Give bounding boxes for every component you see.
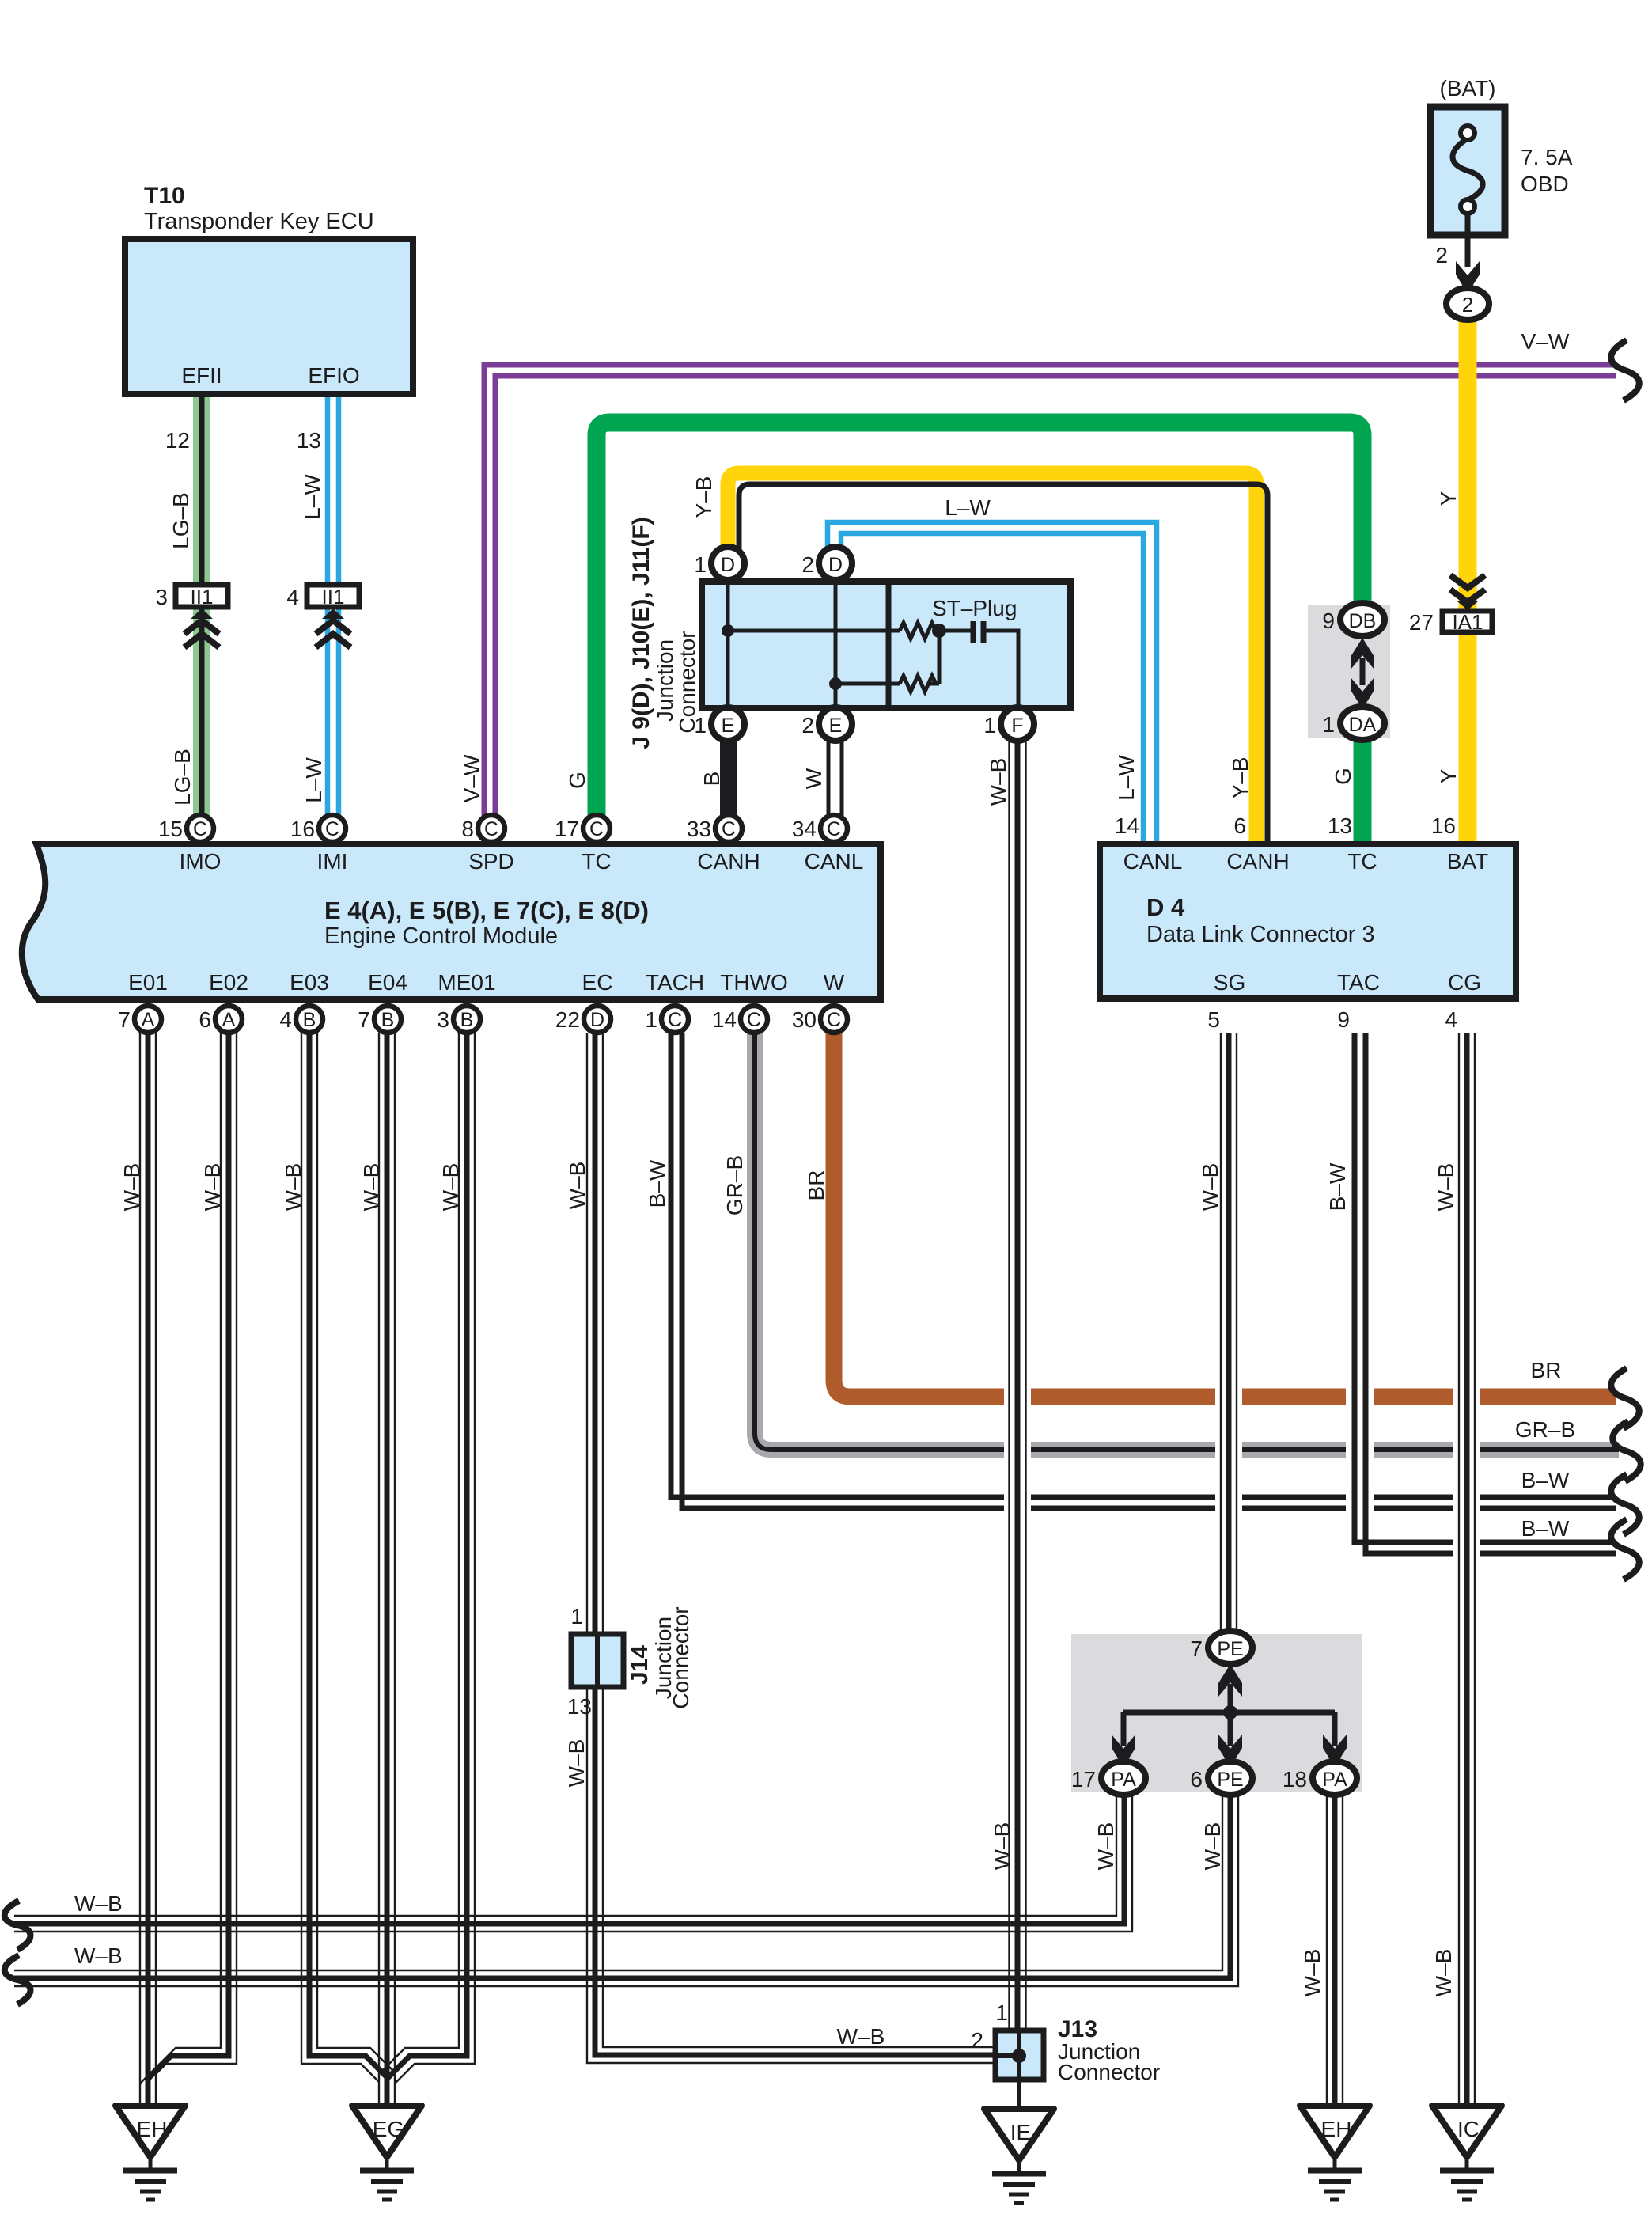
svg-text:W–B: W–B <box>1200 1822 1225 1871</box>
svg-text:17: 17 <box>555 817 579 841</box>
svg-text:D: D <box>828 554 843 576</box>
svg-text:PA: PA <box>1111 1769 1136 1791</box>
wire L-W right blue line <box>336 395 342 819</box>
wire W-B from ECM ME01 pin 3 joining EG ground wire <box>379 1033 475 2084</box>
wire V-W from SPD pin 8 to right break (outer purple line) <box>484 365 1616 819</box>
ground IC <box>1432 2106 1502 2200</box>
svg-text:TC: TC <box>1347 849 1377 874</box>
terminal D2 <box>801 547 852 580</box>
svg-text:IE: IE <box>1010 2120 1031 2144</box>
svg-text:B–W: B–W <box>1521 1468 1570 1492</box>
svg-text:BR: BR <box>804 1170 828 1201</box>
svg-text:T10: T10 <box>144 183 185 209</box>
svg-text:27: 27 <box>1409 610 1434 635</box>
svg-text:13: 13 <box>567 1694 592 1719</box>
svg-text:1: 1 <box>1322 712 1335 737</box>
terminal DB 9 <box>1322 603 1385 636</box>
svg-text:CANL: CANL <box>1123 849 1183 874</box>
svg-text:IMO: IMO <box>180 849 222 874</box>
svg-text:V–W: V–W <box>460 754 484 802</box>
connector DB/DA gray background <box>1308 605 1390 738</box>
svg-text:W–B: W–B <box>1300 1949 1324 1997</box>
svg-text:L–W: L–W <box>301 757 326 803</box>
svg-text:PA: PA <box>1322 1769 1347 1791</box>
connector PE/PA internal wiring <box>1123 1684 1335 1746</box>
fuse 7.5A OBD <box>1430 76 1573 267</box>
svg-text:Transponder Key ECU: Transponder Key ECU <box>144 209 374 234</box>
svg-text:3: 3 <box>437 1007 449 1032</box>
svg-text:E: E <box>829 715 843 737</box>
svg-text:4: 4 <box>286 585 299 609</box>
wire LG-B black center stripe <box>199 395 205 819</box>
svg-text:1: 1 <box>983 713 996 738</box>
block ECM Engine Control Module <box>22 844 881 999</box>
svg-text:9: 9 <box>1337 1007 1350 1032</box>
svg-text:8: 8 <box>461 817 474 841</box>
svg-text:C: C <box>484 818 498 840</box>
wire W-B from PA terminal 18 to ground EH <box>1327 1795 1343 2106</box>
wire break B-W right 2 <box>1611 1519 1639 1579</box>
terminal PE 7 <box>1190 1631 1252 1664</box>
svg-text:LG–B: LG–B <box>169 492 193 549</box>
svg-text:W–B: W–B <box>281 1163 305 1211</box>
wire W-B from DLC3 CG pin 4 to ground IC <box>1459 1033 1475 2106</box>
svg-text:C: C <box>668 1009 682 1031</box>
terminal D1 <box>694 547 745 580</box>
wire from J13 to ground IE <box>1017 2080 1021 2109</box>
wire V-W inner purple line <box>495 376 1616 819</box>
terminal C16 IMI <box>290 815 346 842</box>
svg-text:IMI: IMI <box>317 849 348 874</box>
svg-text:W–B: W–B <box>837 2024 885 2049</box>
svg-text:IA1: IA1 <box>1452 610 1483 634</box>
svg-text:C: C <box>589 818 604 840</box>
svg-text:15: 15 <box>158 817 183 841</box>
svg-text:17: 17 <box>1071 1767 1096 1792</box>
wire B from junction E1 to ECM CANH pin 33 <box>720 741 737 819</box>
svg-text:22: 22 <box>555 1007 580 1032</box>
wire W-B from ECM E01 pin 7 to ground EH <box>140 1033 156 2106</box>
block J9 J10 J11 junction connector <box>702 582 1070 708</box>
svg-text:33: 33 <box>687 817 711 841</box>
terminal C8 SPD <box>461 815 505 842</box>
svg-text:2: 2 <box>801 552 814 577</box>
connector II1 pin 3 <box>155 585 228 609</box>
wire B-W from ECM TACH pin 1 to right break (upper line) <box>671 1033 1616 1497</box>
svg-text:E01: E01 <box>128 970 168 995</box>
svg-text:W–B: W–B <box>119 1163 144 1211</box>
svg-text:EG: EG <box>373 2117 404 2141</box>
connector PE/PA gray background <box>1071 1634 1362 1792</box>
svg-text:W: W <box>801 768 826 789</box>
svg-text:6: 6 <box>199 1007 211 1032</box>
svg-text:ST–Plug: ST–Plug <box>932 596 1017 620</box>
svg-text:C: C <box>193 818 207 840</box>
svg-text:5: 5 <box>1207 1007 1220 1032</box>
svg-text:Y: Y <box>1436 491 1461 506</box>
terminal B4 E03 <box>279 1006 323 1033</box>
svg-text:W–B: W–B <box>990 1822 1014 1871</box>
wire W right line <box>840 741 844 819</box>
svg-text:6: 6 <box>1190 1767 1203 1792</box>
svg-text:Junction: Junction <box>653 639 677 722</box>
svg-text:D 4: D 4 <box>1146 893 1185 921</box>
wire G from DA terminal down to DLC3 TC pin 13 <box>1354 739 1372 844</box>
svg-text:7. 5A: 7. 5A <box>1521 145 1573 169</box>
svg-text:7: 7 <box>1190 1636 1203 1661</box>
svg-text:TACH: TACH <box>646 970 704 995</box>
svg-text:L–W: L–W <box>300 474 324 520</box>
svg-text:W: W <box>824 970 845 995</box>
resistor lower in ST-Plug <box>835 682 900 686</box>
svg-text:W–B: W–B <box>74 1891 123 1916</box>
svg-text:W–B: W–B <box>565 1162 589 1210</box>
svg-text:2: 2 <box>1462 293 1473 317</box>
male arrow into II1 (3) <box>191 609 213 619</box>
svg-text:G: G <box>1331 768 1355 785</box>
ground EH left <box>116 2106 185 2200</box>
svg-text:2: 2 <box>801 713 814 738</box>
svg-text:B: B <box>381 1009 395 1031</box>
svg-text:DB: DB <box>1349 610 1377 632</box>
terminal A7 E01 <box>118 1006 161 1033</box>
svg-text:E02: E02 <box>209 970 248 995</box>
wire W-B F thick center <box>1015 741 1021 2030</box>
svg-text:J 9(D), J10(E), J11(F): J 9(D), J10(E), J11(F) <box>628 517 654 749</box>
male arrow up into PE 7 <box>1218 1664 1242 1697</box>
wire break V-W right <box>1611 340 1639 400</box>
svg-text:CANL: CANL <box>805 849 864 874</box>
svg-text:Engine Control Module: Engine Control Module <box>324 923 558 949</box>
ground EG <box>352 2106 422 2200</box>
ground EH right <box>1300 2106 1370 2200</box>
svg-text:II1: II1 <box>322 585 345 609</box>
svg-text:W–B: W–B <box>564 1739 589 1788</box>
svg-text:Y: Y <box>1436 768 1461 783</box>
terminal E1 <box>694 707 745 741</box>
svg-text:PE: PE <box>1217 1638 1243 1660</box>
svg-text:LG–B: LG–B <box>170 749 195 806</box>
connector II1 pin 4 <box>286 585 359 609</box>
svg-text:16: 16 <box>290 817 315 841</box>
svg-text:14: 14 <box>1115 813 1139 838</box>
terminal E2 <box>801 707 852 741</box>
terminal PE 6 <box>1190 1761 1252 1795</box>
terminal D22 EC <box>555 1006 611 1033</box>
wire W-B from ECM E04 pin 7 to ground EG <box>379 1033 395 2106</box>
wire BR from ECM W pin 30 to right break <box>834 1033 1616 1397</box>
wire W-B from F terminal down to J13 pin 1 (thin left) <box>1008 741 1010 2030</box>
svg-text:V–W: V–W <box>1521 329 1570 354</box>
capacitor in ST-Plug <box>971 621 976 643</box>
svg-text:GR–B: GR–B <box>1515 1417 1575 1442</box>
svg-text:EH: EH <box>137 2117 168 2141</box>
svg-text:1: 1 <box>995 2000 1008 2025</box>
svg-text:(BAT): (BAT) <box>1439 76 1495 100</box>
svg-text:II1: II1 <box>191 585 214 609</box>
female arrows into IA1 <box>1450 575 1485 588</box>
svg-text:GR–B: GR–B <box>722 1155 747 1215</box>
svg-text:BR: BR <box>1531 1358 1562 1382</box>
svg-text:L–W: L–W <box>1114 755 1139 801</box>
terminal B3 ME01 <box>437 1006 480 1033</box>
wire W-B from ECM E03 pin 4 joining EG ground wire <box>301 1033 395 2082</box>
svg-text:7: 7 <box>358 1007 370 1032</box>
svg-text:W–B: W–B <box>200 1163 225 1211</box>
svg-text:F: F <box>1011 715 1023 737</box>
wire W-B from PA terminal 17 to left bus 1 <box>14 1795 1132 1932</box>
connector IA1 pin 27 <box>1409 610 1492 635</box>
terminal C17 TC <box>555 815 610 842</box>
svg-text:13: 13 <box>297 428 321 453</box>
svg-text:C: C <box>827 818 841 840</box>
svg-text:B: B <box>460 1009 474 1031</box>
male arrow down into PE 6 <box>1218 1735 1242 1767</box>
svg-text:2: 2 <box>971 2028 983 2053</box>
svg-text:W–B: W–B <box>359 1163 384 1211</box>
wire W-B from PE terminal 6 to left bus 2 <box>14 1795 1238 1986</box>
svg-text:Y–B: Y–B <box>691 476 716 518</box>
terminal C33 CANH <box>687 815 742 842</box>
svg-text:EFII: EFII <box>181 363 222 388</box>
wire B-W TACH lower line <box>682 1033 1616 1508</box>
male arrow down into DA <box>1351 677 1374 709</box>
wire W-B F redraw over halos <box>1010 1381 1026 1522</box>
terminal PA 18 <box>1283 1761 1357 1795</box>
wire B-W TAC lower line <box>1366 1033 1616 1553</box>
svg-text:OBD: OBD <box>1521 172 1569 196</box>
svg-text:3: 3 <box>155 585 168 609</box>
svg-text:DA: DA <box>1349 714 1377 736</box>
svg-text:Data Link Connector 3: Data Link Connector 3 <box>1146 922 1375 947</box>
svg-text:Connector: Connector <box>1058 2060 1160 2084</box>
svg-text:C: C <box>827 1009 841 1031</box>
svg-text:C: C <box>722 818 736 840</box>
svg-text:ME01: ME01 <box>438 970 495 995</box>
svg-text:13: 13 <box>1328 813 1352 838</box>
svg-text:D: D <box>590 1009 604 1031</box>
terminal C1 TACH <box>645 1006 688 1033</box>
svg-text:E: E <box>722 715 735 737</box>
block D4 Data Link Connector 3 <box>1100 844 1516 999</box>
white halos: vertical wires pass over horizontal wires <box>1004 1381 1031 1522</box>
svg-text:IC: IC <box>1457 2117 1480 2141</box>
svg-text:W–B: W–B <box>1093 1822 1118 1871</box>
wire GR-B black center stripe <box>755 1033 1619 1450</box>
svg-text:E03: E03 <box>290 970 329 995</box>
svg-text:B–W: B–W <box>1521 1516 1570 1541</box>
svg-text:B–W: B–W <box>1325 1162 1350 1211</box>
svg-text:30: 30 <box>792 1007 817 1032</box>
svg-text:W–B: W–B <box>1431 1949 1456 1997</box>
svg-text:TAC: TAC <box>1337 970 1380 995</box>
wire W-B CG redraw over halos <box>1459 1381 1475 1575</box>
wire break bus1 left <box>5 1901 31 1950</box>
wire LG-B from T10 EFII pin 12 to ECM IMO pin 15 (green band) <box>193 395 210 819</box>
wire break BR right <box>1611 1368 1639 1428</box>
male arrow down into PA 18 <box>1323 1735 1347 1767</box>
svg-text:A: A <box>142 1009 155 1031</box>
svg-text:W–B: W–B <box>74 1943 123 1968</box>
terminal PA 17 <box>1071 1761 1146 1795</box>
svg-text:1: 1 <box>694 552 707 577</box>
terminal DA 1 <box>1322 707 1385 740</box>
svg-text:A: A <box>222 1009 236 1031</box>
svg-text:G: G <box>565 772 589 789</box>
svg-text:B–W: B–W <box>645 1159 669 1208</box>
svg-text:CANH: CANH <box>697 849 760 874</box>
svg-text:7: 7 <box>118 1007 131 1032</box>
svg-text:EFIO: EFIO <box>308 363 359 388</box>
svg-text:4: 4 <box>279 1007 292 1032</box>
wire B-W from DLC3 TAC pin 9 to right break (upper line) <box>1355 1033 1616 1542</box>
svg-text:C: C <box>747 1009 761 1031</box>
svg-text:EH: EH <box>1321 2117 1352 2141</box>
wire L-W from T10 EFIO pin 13 to ECM IMI pin 16 (left blue line) <box>325 395 331 819</box>
male arrow into terminal 2 <box>1456 261 1480 294</box>
svg-text:W–B: W–B <box>986 758 1010 806</box>
wire W-B from ECM E02 pin 6 joining EH ground wire <box>140 1033 237 2084</box>
connector J14 <box>571 1634 623 1687</box>
svg-text:1: 1 <box>694 713 707 738</box>
svg-text:BAT: BAT <box>1447 849 1488 874</box>
wire G from ECM TC pin 17 up and right to DB terminal <box>597 423 1362 819</box>
svg-text:2: 2 <box>1435 243 1448 267</box>
terminal B7 E04 <box>358 1006 401 1033</box>
male arrow up from DA side <box>1351 638 1374 669</box>
wire GR-B from ECM THWO pin 14 to right break (gray band) <box>755 1033 1619 1450</box>
svg-text:Connector: Connector <box>669 1606 693 1708</box>
svg-text:C: C <box>325 818 339 840</box>
svg-text:L–W: L–W <box>945 495 991 520</box>
wire L-W inner blue line <box>841 533 1143 844</box>
svg-text:16: 16 <box>1431 813 1456 838</box>
svg-text:CG: CG <box>1448 970 1481 995</box>
svg-text:1: 1 <box>570 1604 583 1629</box>
resistor upper in ST-Plug <box>900 623 936 639</box>
wire B-W TAC redraw over halos <box>1355 1381 1366 1522</box>
wire break B-W right 1 <box>1611 1474 1639 1534</box>
svg-text:CANH: CANH <box>1226 849 1289 874</box>
svg-text:14: 14 <box>712 1007 737 1032</box>
terminal C34 CANL <box>792 815 847 842</box>
svg-text:B: B <box>699 772 724 787</box>
svg-text:18: 18 <box>1283 1767 1307 1792</box>
svg-text:W–B: W–B <box>1198 1163 1222 1211</box>
svg-text:SPD: SPD <box>468 849 514 874</box>
terminal C30 W <box>792 1006 847 1033</box>
wire Y-B black stripe <box>739 484 1267 844</box>
wire break bus2 left <box>5 1955 31 2004</box>
svg-text:W–B: W–B <box>438 1163 463 1211</box>
female terminal 2 <box>1446 288 1489 320</box>
svg-text:TC: TC <box>582 849 611 874</box>
svg-text:SG: SG <box>1214 970 1245 995</box>
block T10 Transponder Key ECU <box>125 183 413 394</box>
ground IE <box>984 2109 1054 2203</box>
svg-text:6: 6 <box>1233 813 1246 838</box>
svg-text:Y–B: Y–B <box>1228 757 1252 799</box>
svg-text:E04: E04 <box>368 970 407 995</box>
wire L-W from junction D2 to DLC3 CANL pin 14 (outer blue line) <box>828 522 1157 844</box>
svg-text:34: 34 <box>792 817 817 841</box>
connector J13 <box>995 2031 1044 2080</box>
svg-text:9: 9 <box>1322 609 1335 633</box>
wire W from junction E2 to ECM CANL pin 34 (left line) <box>827 741 831 819</box>
svg-text:4: 4 <box>1445 1007 1457 1032</box>
wire W-B SG redraw over halos <box>1221 1381 1237 1522</box>
svg-text:B: B <box>303 1009 316 1031</box>
male arrow down into PA 17 <box>1112 1735 1135 1767</box>
svg-text:PE: PE <box>1217 1769 1243 1791</box>
male arrow into II1 (4) <box>322 609 344 619</box>
wire W-B from ECM EC pin 22 through J14 to J13 pin 2 <box>587 1033 995 2063</box>
svg-text:W–B: W–B <box>1434 1163 1458 1211</box>
svg-text:D: D <box>721 554 735 576</box>
wire Y-B yellow band from junction D1 to DLC3 CANH pin 6 <box>728 473 1256 844</box>
wire W-B from DLC3 SG pin 5 down to PE terminal 7 <box>1221 1033 1237 1632</box>
svg-text:EC: EC <box>582 970 613 995</box>
svg-text:E 4(A), E 5(B), E 7(C), E 8(D): E 4(A), E 5(B), E 7(C), E 8(D) <box>324 897 649 924</box>
svg-text:THWO: THWO <box>720 970 788 995</box>
wire Y from fuse terminal 2 to DLC3 BAT pin 16 <box>1459 317 1477 844</box>
terminal C15 IMO <box>158 815 214 842</box>
wire break GR-B right <box>1612 1421 1641 1481</box>
svg-text:1: 1 <box>645 1007 657 1032</box>
svg-text:12: 12 <box>165 428 190 453</box>
terminal F1 <box>983 707 1034 741</box>
wire W-B F thin right <box>1025 741 1026 2030</box>
terminal A6 E02 <box>199 1006 242 1033</box>
terminal C14 THWO <box>712 1006 767 1033</box>
svg-text:J14: J14 <box>627 1645 653 1685</box>
